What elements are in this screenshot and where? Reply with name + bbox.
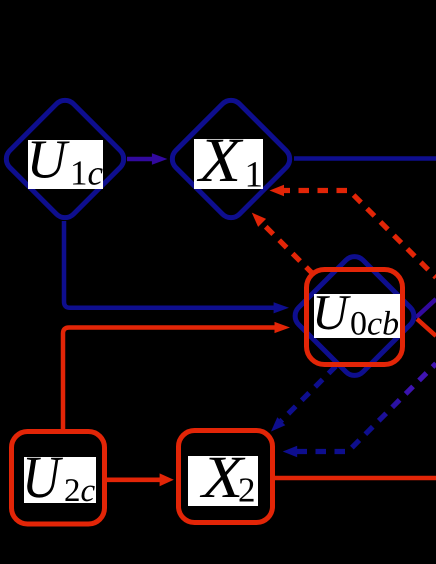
dashed edge U0cb->X2 blue — [271, 366, 336, 432]
edge X2->right red — [273, 476, 436, 481]
node U2c red square — [12, 432, 105, 525]
dashed edge U0cb->X1 red — [252, 213, 314, 275]
node X2 red square — [179, 431, 273, 523]
edge U2c->U0cb red elbow arrow — [63, 322, 290, 429]
edge U1c->X1 purple arrow — [127, 153, 167, 165]
edge X1->right blue — [294, 156, 436, 161]
label X1 — [194, 139, 263, 189]
edge U1c->U0cb blue elbow arrow — [64, 221, 289, 313]
label X2 — [188, 456, 258, 506]
dashed edge offright->X1 red — [270, 185, 436, 278]
node U0cb red square — [307, 270, 403, 365]
label U2c — [24, 457, 96, 503]
label U0cb — [314, 294, 400, 338]
node X1 diamond — [167, 95, 294, 222]
edge U0cb->upper-right purple — [416, 299, 436, 318]
edge U0cb->lower-right red — [417, 319, 436, 336]
node U1c diamond — [1, 95, 128, 222]
dashed edge offright->X2 gradient blue-purple — [283, 364, 436, 458]
node U0cb diamond — [290, 252, 419, 381]
label U1c — [28, 140, 103, 189]
edge U2c->X2 red arrow — [106, 473, 174, 486]
